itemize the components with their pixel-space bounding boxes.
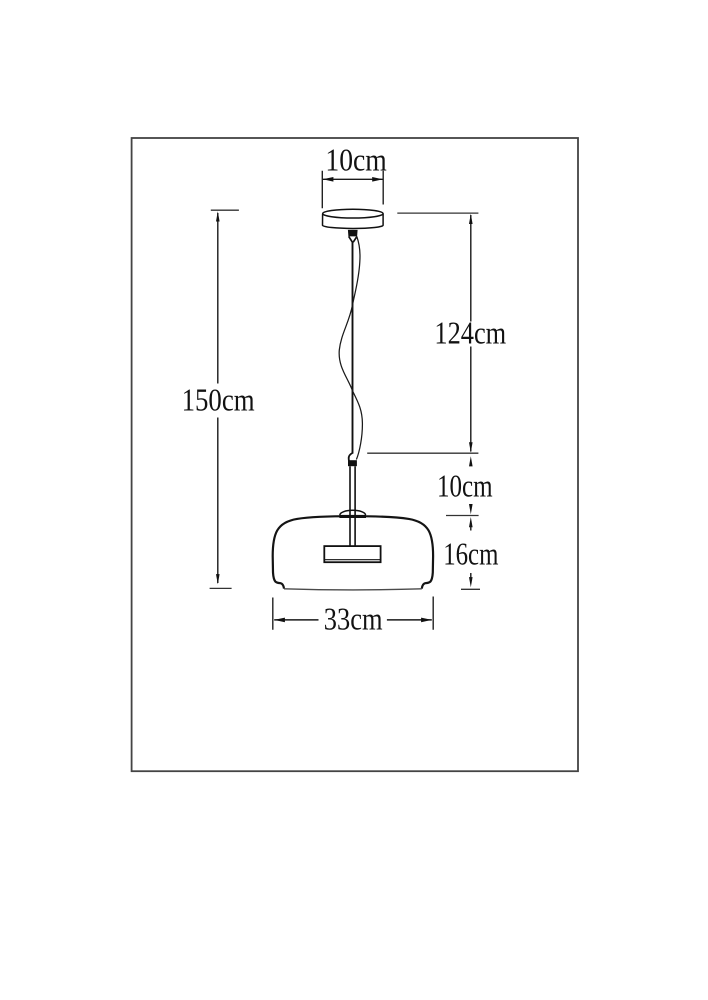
dimension 150cm label: [182, 382, 255, 418]
dimension 124cm vertical line and arrows: [469, 214, 473, 453]
lamp shade bottom edge: [284, 589, 422, 590]
cord grip knot top: [348, 230, 358, 242]
lamp shade outline: [273, 516, 433, 588]
glass dome cap: [340, 510, 366, 515]
svg-text:33cm: 33cm: [324, 601, 383, 637]
ceiling canopy: [323, 209, 384, 228]
LED plate: [324, 546, 380, 562]
dimension 10cm right arrows: [446, 456, 479, 515]
dimension 33cm label: [324, 601, 383, 637]
straight suspension cable: [352, 242, 354, 454]
wavy cord: [339, 237, 362, 460]
dimension 10cm top lines: [322, 171, 383, 209]
svg-text:124cm: 124cm: [434, 315, 506, 351]
svg-text:10cm: 10cm: [325, 142, 386, 178]
dimension 124cm reference lines: [367, 213, 478, 453]
svg-text:16cm: 16cm: [443, 535, 498, 571]
dimension 16cm arrows: [461, 517, 480, 589]
svg-text:150cm: 150cm: [182, 382, 255, 418]
svg-text:10cm: 10cm: [437, 467, 493, 503]
dimension 10cm right label: [437, 467, 493, 503]
dimension 33cm lines: [273, 597, 433, 630]
dimension 10cm top label: [325, 142, 386, 178]
dimension 150cm ticks line and arrows: [210, 210, 239, 588]
border frame: [132, 138, 578, 771]
dimension 16cm label: [443, 535, 498, 571]
cord grip knot bottom: [348, 453, 357, 466]
stem rod: [350, 466, 355, 546]
dimension 124cm label: [434, 315, 506, 351]
cap base bar: [339, 515, 366, 518]
